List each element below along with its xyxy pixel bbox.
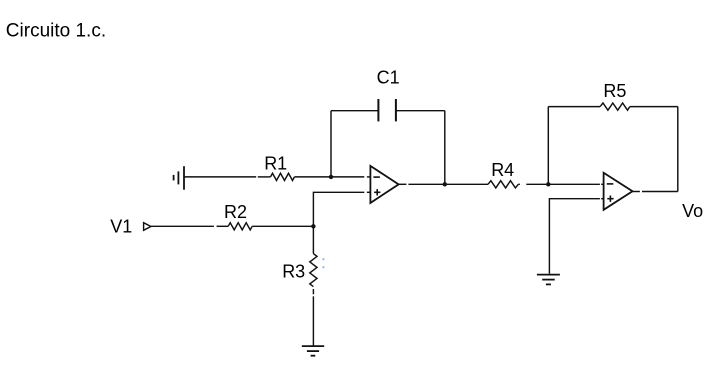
wire: feedback right vertical (C1 down to node C) — [444, 111, 446, 185]
resistor R2 — [224, 202, 252, 230]
wire: U1 output to R4 — [399, 183, 488, 185]
blue marks (value placeholder) near R3 — [322, 258, 324, 268]
svg-text:R5: R5 — [603, 81, 626, 101]
wire: R1 to op-amp U1 inverting input — [295, 176, 371, 178]
wire: R3 to bottom ground — [312, 289, 314, 346]
wire: left ground to R1 — [184, 176, 271, 178]
wire: R5 right lead and feedback right vertical — [630, 107, 678, 192]
resistor R1 — [264, 153, 294, 180]
ground (below U2) — [537, 275, 560, 285]
wire: R2 to node B — [252, 225, 313, 227]
ground (left, rotated, at R1 input) — [174, 166, 184, 190]
svg-text:R2: R2 — [224, 202, 247, 222]
wire: V1 to R2 — [151, 225, 228, 227]
wire: U2 output to feedback corner — [633, 191, 678, 193]
wire: node B up and to U1 non-inverting input — [313, 192, 370, 253]
wire: node D up to R5 — [547, 107, 549, 185]
capacitor C1 — [377, 67, 400, 121]
node D: junction R4 / R5 feedback — [546, 182, 550, 186]
svg-text:Vo: Vo — [682, 201, 703, 221]
svg-text:R1: R1 — [264, 153, 287, 173]
wire: R5 left lead — [548, 106, 600, 108]
resistor R4 — [488, 160, 518, 188]
op-amp U2 — [604, 173, 633, 210]
node A: junction R1 / C1 feedback — [329, 175, 333, 179]
port V1 — [110, 217, 151, 237]
svg-text:V1: V1 — [110, 217, 132, 237]
svg-text:C1: C1 — [377, 67, 400, 87]
wire: C1 right lead — [396, 110, 445, 112]
op-amp U1 — [370, 166, 398, 203]
wire: C1 left lead — [331, 110, 378, 112]
resistor R3 — [282, 254, 317, 287]
svg-text:Circuito 1.c.: Circuito 1.c. — [6, 21, 106, 42]
node C: junction U1 output / C1 feedback — [443, 182, 447, 186]
ground (below R3) — [302, 346, 324, 356]
wire: U2 non-inverting input down to ground — [549, 199, 603, 274]
wire: feedback left vertical (node A up to C1) — [330, 111, 332, 177]
node B: junction R2 / R3 / U1 non-inverting branch — [311, 224, 315, 228]
svg-text:R4: R4 — [491, 160, 514, 180]
svg-text:R3: R3 — [282, 262, 305, 282]
resistor R5 — [600, 81, 630, 110]
wire: R4 to node D and U2 inverting input — [518, 183, 603, 185]
